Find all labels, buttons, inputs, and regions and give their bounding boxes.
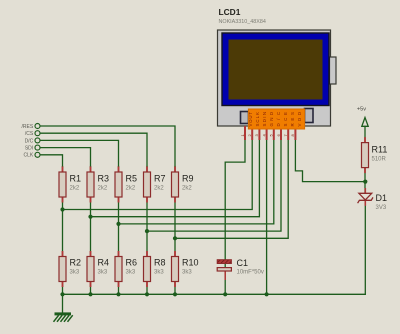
svg-text:R11: R11 xyxy=(372,145,388,155)
svg-text:GND: GND xyxy=(269,112,274,127)
svg-text:NOKIA3310_48X84: NOKIA3310_48X84 xyxy=(219,19,266,25)
svg-text:2k2: 2k2 xyxy=(70,186,80,192)
svg-text:R10: R10 xyxy=(182,258,199,268)
svg-text:SCE: SCE xyxy=(283,112,288,127)
svg-text:RES: RES xyxy=(290,112,295,127)
svg-text:D/C: D/C xyxy=(276,112,281,127)
svg-text:3k3: 3k3 xyxy=(98,270,108,276)
svg-text:R1: R1 xyxy=(70,174,82,184)
svg-text:3V3: 3V3 xyxy=(376,205,387,211)
svg-text:SDIN: SDIN xyxy=(262,112,267,127)
svg-text:R8: R8 xyxy=(154,258,166,268)
svg-text:2k2: 2k2 xyxy=(98,186,108,192)
svg-text:2k2: 2k2 xyxy=(182,186,192,192)
svg-text:R3: R3 xyxy=(98,174,110,184)
svg-text:R5: R5 xyxy=(126,174,138,184)
svg-text:D/C: D/C xyxy=(25,138,34,144)
svg-text:VDD: VDD xyxy=(297,112,302,127)
svg-text:2k2: 2k2 xyxy=(154,186,164,192)
svg-text:SDI: SDI xyxy=(25,146,33,152)
svg-text:2k2: 2k2 xyxy=(126,186,136,192)
svg-text:CLK: CLK xyxy=(23,153,33,159)
svg-text:LCD1: LCD1 xyxy=(219,7,241,17)
svg-text:D1: D1 xyxy=(376,193,388,203)
svg-text:R9: R9 xyxy=(182,174,194,184)
svg-text:C1: C1 xyxy=(237,258,249,268)
svg-text:3k3: 3k3 xyxy=(126,270,136,276)
svg-text:R2: R2 xyxy=(70,258,82,268)
svg-text:R4: R4 xyxy=(98,258,110,268)
svg-text:R6: R6 xyxy=(126,258,138,268)
svg-text:3k3: 3k3 xyxy=(70,270,80,276)
svg-text:510R: 510R xyxy=(372,157,387,163)
svg-text:/RES: /RES xyxy=(22,124,34,130)
svg-text:3k3: 3k3 xyxy=(154,270,164,276)
svg-text:/CS: /CS xyxy=(25,131,34,137)
svg-text:10mF*50v: 10mF*50v xyxy=(237,270,264,276)
svg-text:+5v: +5v xyxy=(357,107,366,113)
svg-text:VOUT: VOUT xyxy=(248,112,253,127)
svg-text:R7: R7 xyxy=(154,174,166,184)
svg-text:SCLK: SCLK xyxy=(255,112,260,127)
svg-text:3k3: 3k3 xyxy=(182,270,192,276)
